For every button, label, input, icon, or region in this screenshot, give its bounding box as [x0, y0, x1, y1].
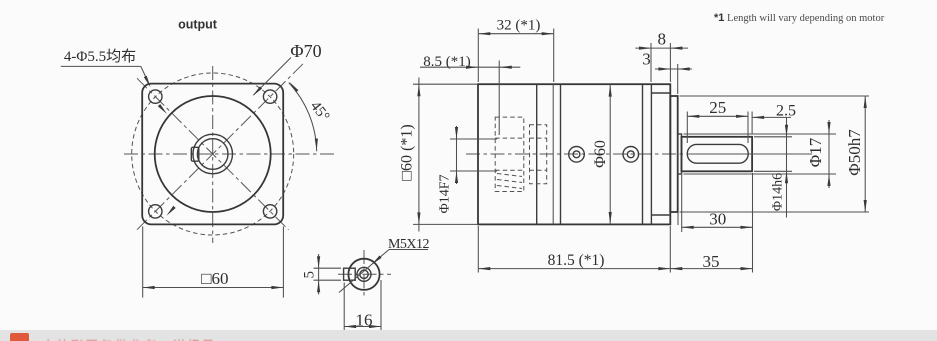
- svg-text:5: 5: [302, 271, 318, 279]
- 45 degree arc dimension: [289, 83, 317, 152]
- svg-text:Φ14h6: Φ14h6: [771, 173, 786, 211]
- gearbox body outline: [478, 84, 670, 224]
- shaft end view: centerlines: [338, 273, 391, 275]
- shaft shoulder Phi17: [678, 134, 682, 174]
- hidden bore small (dashed): [530, 125, 547, 184]
- svg-text:Φ60: Φ60: [592, 140, 609, 168]
- pilot boss circle Phi50: [155, 96, 271, 212]
- output shaft Phi14h6: [682, 137, 753, 172]
- svg-text:25: 25: [709, 98, 726, 117]
- svg-text:16: 16: [356, 311, 373, 330]
- output shaft circle Phi14: [197, 139, 228, 170]
- dim Phi17: extension + dimension: [684, 133, 837, 135]
- mounting hole hole BL Phi5.5: [149, 205, 162, 218]
- body division line 1: [536, 84, 538, 224]
- shaft end view: key 5x5: [344, 268, 356, 280]
- body division line 5 (front plate): [650, 84, 652, 224]
- screw 1: [569, 147, 585, 163]
- side view: horizontal centerline: [466, 153, 812, 155]
- mounting hole hole BR Phi5.5: [263, 205, 276, 218]
- dim sq60: dimension line: [143, 287, 284, 289]
- svg-text:4-Φ5.5均布: 4-Φ5.5均布: [64, 48, 136, 65]
- body division line 4: [642, 84, 644, 224]
- arrow on BL diagonal: [167, 206, 176, 216]
- dim Phi50h7: extension + dimension: [680, 95, 870, 97]
- pilot boss Phi50h7: [670, 96, 677, 212]
- dim 30: extension + dimension: [681, 173, 683, 232]
- centerline through shaft: [690, 153, 812, 155]
- svg-text:45°: 45°: [307, 98, 333, 124]
- output shaft circle Phi17: [193, 134, 233, 174]
- Phi70 bolt circle (dashed): [132, 73, 294, 235]
- hidden clamp screw (dashed hatch): [497, 174, 522, 177]
- dim 8: extension + dimension: [650, 43, 652, 82]
- svg-text:output: output: [178, 18, 218, 32]
- dim 8.5(*1): dimension line with outside arrows: [420, 66, 520, 68]
- keyway slot on shaft: [687, 144, 748, 163]
- mounting hole hole TL Phi5.5: [149, 90, 162, 103]
- front view: vertical centerline: [212, 66, 214, 243]
- red caption (clipped): [42, 335, 222, 341]
- body division line 3: [560, 84, 562, 224]
- arrow on TL diagonal: [158, 104, 167, 114]
- front view: horizontal centerline: [124, 153, 336, 155]
- hidden coupling bore (dashed): [495, 117, 524, 191]
- svg-text:□60 (*1): □60 (*1): [399, 124, 416, 180]
- bottom gray band: [0, 330, 937, 341]
- svg-text:Φ14F7: Φ14F7: [438, 174, 453, 213]
- dim 16: extension+dimension lines: [343, 283, 345, 335]
- svg-text:32 (*1): 32 (*1): [497, 18, 541, 34]
- note top right: [714, 12, 884, 24]
- dim Phi60 (body height): [609, 85, 611, 224]
- dim 5: extension+dimension lines: [314, 267, 342, 269]
- front plate inner step lines: [651, 92, 670, 94]
- svg-text:8.5 (*1): 8.5 (*1): [423, 54, 471, 70]
- svg-text:3: 3: [642, 50, 651, 69]
- dim 32(*1): extension + dimension: [477, 29, 479, 83]
- svg-text:M5X12: M5X12: [388, 237, 430, 252]
- dim 35: dimension line: [670, 268, 752, 270]
- dim sq60: extension lines: [142, 227, 144, 298]
- front view: diagonal centerline BL-TR extended: [137, 62, 305, 229]
- svg-text:Φ17: Φ17: [806, 137, 825, 167]
- boss lower face line: [677, 212, 679, 225]
- svg-text:35: 35: [703, 252, 720, 271]
- mounting hole hole TR Phi5.5: [263, 90, 276, 103]
- M5X12 label leader: [389, 249, 428, 251]
- square flange outline (60x60): [142, 84, 283, 225]
- shaft end view: shaft circle Phi14: [348, 259, 379, 290]
- svg-text:Φ70: Φ70: [290, 41, 321, 61]
- svg-text:30: 30: [709, 210, 726, 229]
- dim 2.5: dimension line: [751, 112, 753, 135]
- dim 81.5(*1): extension + dimension: [477, 226, 479, 273]
- label Phi70 leader: [254, 58, 292, 96]
- svg-text:8: 8: [658, 30, 667, 49]
- svg-text:Φ50h7: Φ50h7: [845, 129, 864, 176]
- dim sq60(*1): extension + dimension: [413, 83, 477, 85]
- svg-text:□60: □60: [201, 269, 228, 288]
- dim Phi14h6: extension + dimension: [754, 136, 792, 138]
- shaft end view: M5 tap circles: [357, 267, 371, 281]
- red icon bottom left: [10, 333, 29, 341]
- body division line 2 (32 ext into body): [552, 84, 554, 224]
- dim 25: extension + dimension: [686, 112, 688, 144]
- screw 2: [623, 147, 639, 163]
- svg-text:81.5 (*1): 81.5 (*1): [548, 252, 605, 269]
- svg-text:2.5: 2.5: [776, 103, 796, 120]
- dim Phi14F7: extension + dimension: [450, 138, 497, 140]
- dim 3: extension + dimension: [677, 64, 679, 94]
- keyway on front shaft: [191, 147, 199, 161]
- front view: diagonal centerline TL-BR: [137, 78, 289, 230]
- label 4-Phi5.5 leader: [61, 65, 141, 67]
